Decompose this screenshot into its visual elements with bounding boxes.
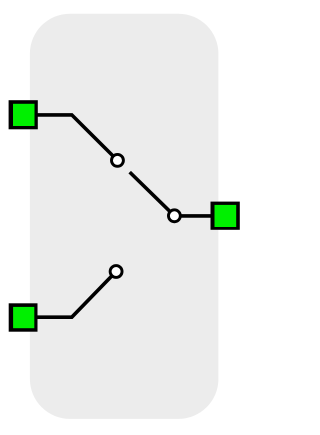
- terminal pin 1 (top-left): [9, 100, 38, 129]
- contact node C: [110, 266, 122, 278]
- switch lever: from contact A side to common contact B: [130, 172, 175, 216]
- contact node A: [112, 154, 124, 166]
- terminal pin 3 (bottom-left): [9, 303, 38, 331]
- contact node B (common): [168, 210, 180, 222]
- wire pin3 to contact C: [37, 272, 116, 318]
- switch S1 body: [30, 14, 219, 419]
- terminal pin 2 (right): [211, 202, 240, 230]
- wire contact B to pin 2: [174, 214, 212, 218]
- wire pin1 to contact A: [38, 115, 118, 160]
